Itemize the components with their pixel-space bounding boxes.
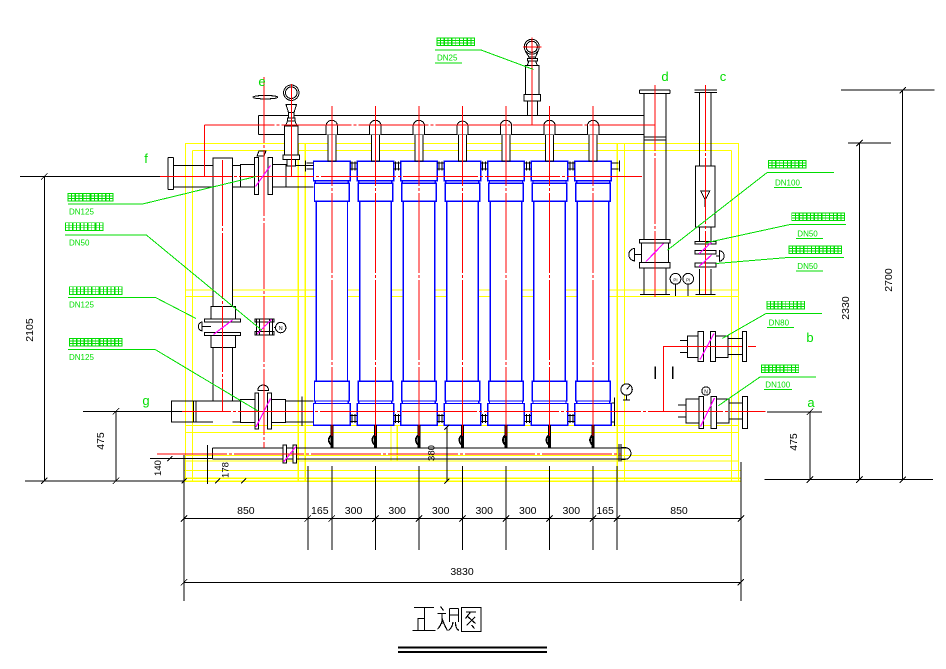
module M7 dome on manifold — [587, 120, 598, 134]
left dimension 2105 — [20, 177, 184, 481]
dimension ticks row1 — [181, 515, 187, 521]
bottom header connector between M1 and M2 — [350, 414, 357, 423]
svg-text:e: e — [258, 74, 265, 89]
module M3 dome on manifold — [413, 120, 424, 134]
label product pneumatic valve DN100 — [769, 160, 776, 168]
label backwash upper vent pneumatic valve DN125 — [69, 287, 76, 295]
right dimension 475 — [765, 412, 933, 480]
valve diagonal c pneumatic — [699, 255, 712, 267]
svg-text:a: a — [807, 395, 815, 410]
leader to a valve — [718, 377, 760, 406]
dimension 380 vertical at center — [446, 427, 448, 481]
pressure gauge PI 1 — [670, 273, 681, 296]
c pipe bottom end bar — [696, 294, 716, 296]
module M7 top nozzle neck — [587, 120, 598, 161]
module M2 dome on manifold — [370, 120, 381, 134]
svg-text:DN25: DN25 — [437, 54, 458, 63]
svg-text:DN80: DN80 — [769, 319, 790, 328]
bottom header connector between M6 and M7 — [568, 414, 575, 423]
leader to DN25 valve — [481, 50, 534, 70]
skid frame outer rectangle (yellow) — [184, 144, 741, 482]
d pipe collar marks — [644, 137, 666, 140]
top product manifold pipe — [258, 116, 644, 135]
c valve2 side handle — [720, 251, 725, 262]
svg-text:c: c — [720, 69, 727, 84]
pipe break marks — [655, 367, 672, 379]
svg-text:DN50: DN50 — [69, 239, 90, 248]
membrane module M5 — [488, 161, 525, 425]
title text front view (zheng shi tu) — [398, 607, 547, 653]
valve diagonal a — [701, 398, 715, 427]
label exhaust motor valve DN50 — [65, 223, 72, 231]
top header connector between M1 and M2 — [350, 162, 357, 171]
svg-text:2105: 2105 — [24, 318, 36, 342]
top header connector between M3 and M4 — [437, 162, 444, 171]
left vertical pipe red centerline — [221, 160, 223, 411]
bottom header connector between M4 and M5 — [481, 414, 488, 423]
bottom header end stub right of M7 — [611, 398, 614, 426]
d pipe bottom end bar — [640, 294, 670, 296]
label backwash inlet pneumatic valve DN125 — [68, 194, 75, 202]
svg-text:300: 300 — [388, 505, 406, 517]
d valve side handle — [629, 248, 635, 261]
svg-text:PI: PI — [673, 277, 677, 282]
feed motor valve a DN100 — [678, 387, 748, 429]
exhaust valve motor circle — [276, 322, 286, 332]
leader to b valve — [723, 314, 767, 339]
svg-text:140: 140 — [153, 460, 164, 476]
label cleaning drain valve DN80 — [767, 301, 774, 309]
e riser red centerline — [263, 77, 265, 448]
svg-text:475: 475 — [95, 432, 107, 450]
top header connector between M6 and M7 — [568, 162, 575, 171]
frame rails at bottom manifold level (yellow) — [186, 455, 732, 457]
pipe g stub with end flange — [172, 397, 314, 427]
svg-text:3830: 3830 — [450, 566, 474, 578]
left vertical backwash pipe — [198, 158, 240, 401]
backwash upper vent pneumatic valve body — [211, 306, 236, 319]
exhaust motor valve DN50 — [255, 319, 286, 336]
bottom drain manifold pipe — [213, 444, 631, 461]
gauge left of valve a — [621, 384, 632, 400]
svg-text:f: f — [144, 151, 148, 166]
g/a line red centerline — [156, 410, 766, 412]
module M4 bottom hose connection — [461, 425, 464, 448]
svg-text:g: g — [142, 393, 149, 408]
module M2 top nozzle neck — [370, 120, 381, 161]
top header end stub right of M7 — [611, 161, 619, 172]
label feed manual regulating valve DN50 — [792, 213, 799, 221]
label feed pneumatic regulating valve DN50 — [789, 246, 796, 254]
module M1 top nozzle neck — [326, 120, 337, 161]
membrane module M1 — [314, 161, 351, 425]
pipe d product outlet column — [640, 90, 671, 295]
left dimension 475 — [83, 411, 182, 481]
svg-text:2700: 2700 — [883, 268, 895, 292]
right dimension 2700 — [841, 90, 934, 480]
backwash lower vent pneumatic valve on g line — [241, 385, 286, 429]
flange f end — [168, 157, 173, 189]
svg-text:b: b — [806, 330, 813, 345]
label auto air vent valve DN25 — [437, 38, 444, 46]
top header connector between M2 and M3 — [394, 162, 401, 171]
manifold red centerline — [205, 124, 655, 126]
membrane module M2 — [357, 161, 394, 425]
skid frame inner offset lines (yellow) — [192, 151, 194, 482]
valve stem e - top disc — [253, 96, 278, 99]
membrane module M7 — [575, 161, 612, 425]
base band (yellow) — [184, 470, 741, 472]
module M3 top nozzle neck — [413, 120, 424, 161]
svg-text:850: 850 — [670, 505, 688, 517]
svg-text:N: N — [704, 389, 708, 395]
frame rails above bottom headers (yellow) — [186, 425, 739, 427]
module M2 bottom hose connection — [374, 425, 377, 448]
label feed motor valve DN100 — [761, 365, 768, 373]
svg-text:2330: 2330 — [840, 296, 852, 320]
drain manifold right end cap — [619, 444, 631, 461]
vent riser red centerline — [290, 84, 292, 176]
leader to c manual valve — [705, 225, 790, 244]
module M6 dome on manifold — [544, 120, 555, 134]
membrane module M4 — [444, 161, 481, 425]
feed manual regulating valve DN50 on c pipe — [695, 242, 716, 255]
product pneumatic valve DN100 on d pipe — [629, 239, 670, 268]
cleaning drain valve b DN80 — [680, 332, 747, 362]
module M5 dome on manifold — [500, 120, 511, 134]
svg-text:DN125: DN125 — [69, 208, 94, 217]
svg-text:165: 165 — [311, 505, 329, 517]
f line red centerline — [157, 176, 644, 178]
svg-text:DN100: DN100 — [765, 381, 790, 390]
frame vertical members left of module bank (yellow) — [297, 144, 299, 482]
svg-text:300: 300 — [345, 505, 363, 517]
valve side handle — [198, 322, 202, 331]
svg-text:850: 850 — [237, 505, 255, 517]
svg-text:380: 380 — [427, 445, 438, 461]
frame mid horizontal rails (yellow) — [186, 289, 739, 291]
membrane module M3 — [401, 161, 438, 425]
feed pneumatic regulating valve DN50 on c pipe — [695, 251, 724, 267]
top header connector between M4 and M5 — [481, 162, 488, 171]
pressure gauge PI 2 — [683, 273, 694, 296]
pipe f horizontal backwash line — [168, 157, 313, 189]
svg-text:DN100: DN100 — [775, 179, 800, 188]
bottom header connector between M3 and M4 — [437, 414, 444, 423]
top header connector between M5 and M6 — [524, 162, 531, 171]
module red centerlines — [332, 106, 593, 436]
right dimension 2330 — [848, 143, 891, 480]
svg-text:DN50: DN50 — [797, 262, 818, 271]
leader to c pneumatic valve — [716, 258, 788, 264]
g valve top dome handle — [258, 385, 269, 390]
frame vertical members right of module bank (yellow) — [616, 144, 618, 482]
pipe g end bar at frame — [301, 397, 303, 427]
c pipe red centerline — [704, 85, 706, 294]
top header end stub left of M1 — [306, 161, 314, 172]
module M4 dome on manifold — [457, 121, 468, 134]
membrane module M6 — [531, 161, 568, 425]
svg-text:165: 165 — [596, 505, 614, 517]
DN25 riser red centerline — [531, 37, 533, 125]
valve diagonal d — [646, 244, 664, 262]
svg-text:475: 475 — [788, 433, 800, 451]
leader to upper vent valve — [156, 298, 197, 319]
module M3 bottom hose connection — [417, 425, 420, 448]
svg-text:300: 300 — [519, 505, 537, 517]
svg-text:DN125: DN125 — [69, 353, 94, 362]
extension lines for row1 — [184, 455, 741, 601]
svg-text:300: 300 — [432, 505, 450, 517]
valve diagonal b — [700, 334, 714, 360]
svg-text:300: 300 — [563, 505, 581, 517]
module M1 dome on manifold — [326, 120, 337, 134]
svg-text:DN125: DN125 — [69, 301, 94, 310]
module M1 bottom hose connection — [330, 425, 333, 448]
red centerlines group — [156, 37, 766, 454]
valve diagonal drain valve — [284, 447, 297, 463]
svg-text:PI: PI — [686, 277, 690, 282]
bottom header connector between M2 and M3 — [394, 414, 401, 423]
svg-text:d: d — [661, 69, 668, 84]
label backwash lower vent pneumatic valve DN125 — [69, 338, 76, 346]
drain manifold red centerline — [157, 453, 621, 455]
left pipe lower section — [213, 347, 233, 400]
leader to exhaust motor valve — [146, 235, 262, 330]
leader to g valve — [156, 350, 259, 411]
pipe c feed column — [695, 90, 717, 295]
flange d top — [640, 90, 671, 94]
title double underline — [398, 647, 547, 649]
module M5 bottom hose connection — [505, 425, 508, 448]
valve on f line (backwash inlet pneumatic valve) — [241, 151, 287, 195]
red drop from manifold to f line — [204, 125, 206, 176]
module M7 bottom hose connection — [592, 425, 595, 448]
valve f handle flag — [257, 151, 266, 156]
frame vertical pair between modules 2-3 lower (yellow) — [390, 425, 392, 461]
left dimension 140 — [150, 458, 212, 460]
svg-text:N: N — [279, 326, 283, 332]
module M6 bottom hose connection — [548, 425, 551, 448]
svg-text:DN50: DN50 — [797, 230, 818, 239]
leader to f valve — [143, 177, 256, 204]
bottom dimension row line — [184, 518, 741, 520]
leader to d valve — [667, 173, 767, 251]
svg-text:300: 300 — [475, 505, 493, 517]
valve diagonal f — [256, 166, 271, 187]
drain valve on manifold left — [283, 445, 297, 463]
bottom header connector between M5 and M6 — [524, 414, 531, 423]
valve diagonal g — [256, 399, 271, 428]
d pipe red centerline — [654, 85, 656, 299]
automatic air vent valve DN25 — [524, 39, 541, 115]
dimension 178 at drain line — [215, 479, 220, 484]
valve diagonal exhaust motor valve — [257, 320, 272, 335]
rotameter float symbol — [701, 191, 710, 207]
c pipe below rotameter — [700, 227, 711, 295]
module M6 top nozzle neck — [544, 120, 555, 161]
overall dimension 3830 line — [184, 581, 741, 583]
svg-text:178: 178 — [221, 462, 232, 478]
pipe g segments — [196, 401, 314, 422]
module M4 top nozzle neck — [457, 121, 468, 161]
flange c top — [695, 90, 717, 93]
module M5 top nozzle neck — [500, 120, 511, 161]
valve diagonal left-pipe valve — [214, 320, 233, 335]
b valve red line — [663, 347, 742, 412]
valve a motor actuator symbol — [702, 387, 710, 395]
air vent valve on f line end — [283, 85, 300, 166]
valve diagonal c manual — [699, 242, 712, 254]
rotameter body on c pipe — [695, 166, 715, 227]
